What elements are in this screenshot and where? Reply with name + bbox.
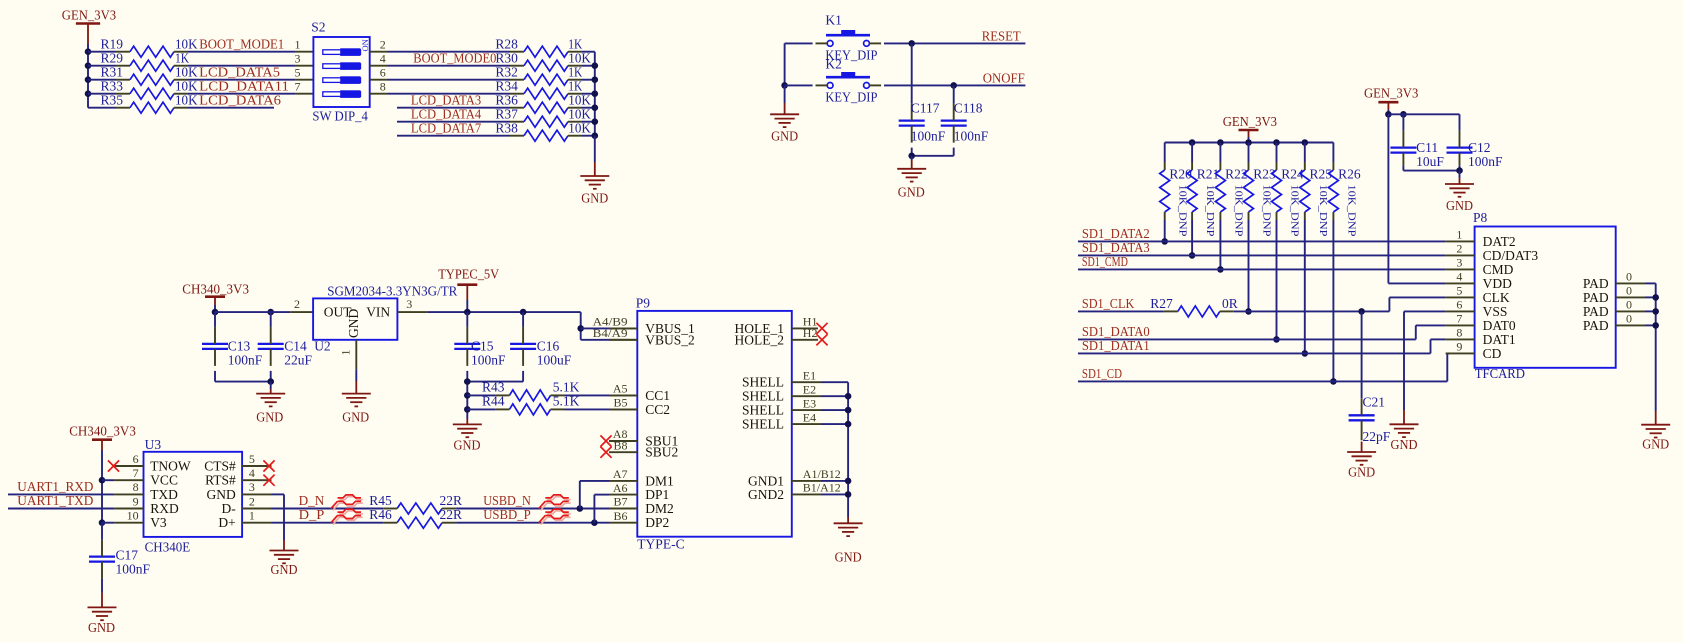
svg-text:SHELL: SHELL bbox=[742, 417, 784, 432]
svg-text:R45: R45 bbox=[369, 493, 392, 508]
svg-text:R19: R19 bbox=[100, 37, 123, 52]
svg-text:10K_DNP: 10K_DNP bbox=[1261, 185, 1273, 237]
svg-text:R34: R34 bbox=[495, 79, 518, 94]
svg-text:3: 3 bbox=[295, 52, 301, 66]
svg-text:5.1K: 5.1K bbox=[553, 393, 580, 408]
svg-text:DP1: DP1 bbox=[645, 487, 669, 502]
svg-text:VIN: VIN bbox=[366, 305, 390, 320]
svg-text:C117: C117 bbox=[911, 101, 940, 116]
svg-text:A6: A6 bbox=[613, 481, 628, 495]
svg-text:4: 4 bbox=[1456, 270, 1462, 284]
svg-text:8: 8 bbox=[380, 80, 386, 94]
svg-text:100nF: 100nF bbox=[954, 129, 989, 144]
svg-text:DAT0: DAT0 bbox=[1483, 318, 1516, 333]
svg-text:3: 3 bbox=[406, 297, 412, 311]
svg-text:R36: R36 bbox=[495, 93, 518, 108]
svg-text:K1: K1 bbox=[825, 13, 842, 28]
svg-text:SD1_DATA0: SD1_DATA0 bbox=[1082, 324, 1150, 339]
svg-text:RXD: RXD bbox=[150, 501, 179, 516]
svg-text:SD1_DATA2: SD1_DATA2 bbox=[1082, 226, 1150, 241]
svg-text:CH340_3V3: CH340_3V3 bbox=[182, 282, 249, 297]
svg-text:ONOFF: ONOFF bbox=[983, 70, 1025, 85]
svg-text:GND: GND bbox=[581, 191, 608, 206]
svg-text:SW DIP_4: SW DIP_4 bbox=[312, 109, 368, 124]
svg-text:LCD_DATA3: LCD_DATA3 bbox=[411, 93, 482, 108]
svg-text:B1/A12: B1/A12 bbox=[803, 481, 841, 495]
svg-text:VDD: VDD bbox=[1483, 276, 1512, 291]
svg-text:CC1: CC1 bbox=[645, 388, 670, 403]
svg-text:E1: E1 bbox=[803, 368, 816, 382]
svg-text:R33: R33 bbox=[100, 79, 123, 94]
svg-text:22R: 22R bbox=[440, 493, 463, 508]
svg-text:DAT2: DAT2 bbox=[1483, 234, 1516, 249]
svg-text:GND: GND bbox=[342, 410, 369, 425]
svg-text:E2: E2 bbox=[803, 382, 816, 396]
svg-text:100nF: 100nF bbox=[1468, 154, 1503, 169]
svg-text:C13: C13 bbox=[228, 338, 251, 353]
svg-text:USBD_N: USBD_N bbox=[483, 493, 531, 508]
svg-text:10K: 10K bbox=[568, 51, 591, 66]
svg-text:C21: C21 bbox=[1363, 395, 1386, 410]
svg-text:9: 9 bbox=[1456, 340, 1462, 354]
svg-text:R32: R32 bbox=[495, 65, 518, 80]
svg-text:TXD: TXD bbox=[150, 487, 178, 502]
svg-text:CLK: CLK bbox=[1483, 290, 1510, 305]
svg-text:3: 3 bbox=[249, 480, 255, 494]
svg-text:GND: GND bbox=[271, 562, 298, 577]
svg-text:PAD: PAD bbox=[1583, 276, 1609, 291]
svg-text:LCD_DATA11: LCD_DATA11 bbox=[199, 79, 289, 94]
svg-text:GND: GND bbox=[1446, 198, 1473, 213]
svg-text:LCD_DATA5: LCD_DATA5 bbox=[199, 65, 280, 80]
svg-text:100nF: 100nF bbox=[116, 561, 151, 576]
svg-text:R37: R37 bbox=[495, 107, 518, 122]
svg-text:R43: R43 bbox=[482, 379, 505, 394]
svg-text:K2: K2 bbox=[825, 56, 842, 71]
svg-text:GND: GND bbox=[835, 550, 862, 565]
svg-text:8: 8 bbox=[133, 480, 139, 494]
svg-text:100nF: 100nF bbox=[228, 352, 263, 367]
svg-text:BOOT_MODE0: BOOT_MODE0 bbox=[413, 51, 496, 66]
svg-text:10K: 10K bbox=[175, 93, 198, 108]
svg-text:A7: A7 bbox=[613, 467, 628, 481]
svg-text:TFCARD: TFCARD bbox=[1475, 366, 1526, 381]
svg-text:C16: C16 bbox=[537, 338, 560, 353]
svg-text:E4: E4 bbox=[803, 410, 816, 424]
svg-text:10K: 10K bbox=[175, 37, 198, 52]
svg-text:0R: 0R bbox=[1222, 296, 1238, 311]
svg-text:9: 9 bbox=[133, 494, 139, 508]
svg-text:R31: R31 bbox=[100, 65, 123, 80]
svg-text:PAD: PAD bbox=[1583, 304, 1609, 319]
svg-text:2: 2 bbox=[294, 297, 300, 311]
svg-text:SHELL: SHELL bbox=[742, 389, 784, 404]
svg-text:TNOW: TNOW bbox=[150, 459, 191, 474]
svg-text:GND: GND bbox=[88, 620, 115, 635]
svg-text:0: 0 bbox=[1626, 298, 1632, 312]
svg-text:HOLE_2: HOLE_2 bbox=[735, 332, 785, 347]
svg-text:R27: R27 bbox=[1150, 296, 1173, 311]
svg-text:U2: U2 bbox=[314, 338, 331, 353]
svg-text:10K: 10K bbox=[175, 79, 198, 94]
svg-text:GND2: GND2 bbox=[748, 487, 784, 502]
svg-text:RESET: RESET bbox=[982, 28, 1022, 43]
svg-text:10K: 10K bbox=[568, 107, 591, 122]
svg-text:LCD_DATA7: LCD_DATA7 bbox=[411, 121, 482, 136]
svg-text:GND: GND bbox=[346, 309, 361, 338]
svg-text:10K_DNP: 10K_DNP bbox=[1177, 185, 1189, 237]
svg-text:10uF: 10uF bbox=[1416, 154, 1444, 169]
svg-text:DM2: DM2 bbox=[645, 501, 674, 516]
svg-text:10K: 10K bbox=[568, 121, 591, 136]
svg-text:2: 2 bbox=[249, 494, 255, 508]
svg-text:SHELL: SHELL bbox=[742, 403, 784, 418]
svg-text:TYPEC_5V: TYPEC_5V bbox=[438, 266, 499, 281]
svg-text:GND: GND bbox=[1642, 437, 1669, 452]
svg-text:SD1_CLK: SD1_CLK bbox=[1082, 296, 1135, 311]
svg-text:U3: U3 bbox=[145, 437, 162, 452]
svg-text:C12: C12 bbox=[1468, 140, 1491, 155]
svg-text:1: 1 bbox=[295, 38, 301, 52]
svg-text:10: 10 bbox=[127, 509, 139, 523]
svg-text:22pF: 22pF bbox=[1363, 429, 1391, 444]
svg-text:1: 1 bbox=[339, 350, 353, 356]
svg-text:RTS#: RTS# bbox=[205, 473, 236, 488]
svg-text:B6: B6 bbox=[613, 509, 627, 523]
svg-text:P8: P8 bbox=[1473, 210, 1488, 225]
svg-text:B8: B8 bbox=[613, 438, 627, 452]
svg-text:1K: 1K bbox=[568, 65, 582, 80]
svg-text:P9: P9 bbox=[636, 295, 651, 310]
svg-text:5: 5 bbox=[1456, 284, 1462, 298]
svg-text:CD/DAT3: CD/DAT3 bbox=[1483, 248, 1539, 263]
svg-text:100nF: 100nF bbox=[911, 129, 946, 144]
svg-text:CH340_3V3: CH340_3V3 bbox=[69, 424, 136, 439]
svg-text:GEN_3V3: GEN_3V3 bbox=[1364, 86, 1419, 101]
svg-text:CH340E: CH340E bbox=[145, 540, 191, 555]
svg-text:VCC: VCC bbox=[150, 473, 178, 488]
svg-text:1: 1 bbox=[1456, 228, 1462, 242]
svg-text:R29: R29 bbox=[100, 51, 123, 66]
svg-text:DP2: DP2 bbox=[645, 515, 669, 530]
svg-text:D_P: D_P bbox=[299, 507, 325, 522]
svg-text:C11: C11 bbox=[1416, 140, 1438, 155]
svg-text:10K_DNP: 10K_DNP bbox=[1289, 185, 1301, 237]
svg-text:TYPE-C: TYPE-C bbox=[637, 537, 684, 552]
svg-text:4: 4 bbox=[380, 52, 386, 66]
svg-text:C15: C15 bbox=[471, 338, 494, 353]
svg-text:100nF: 100nF bbox=[471, 352, 506, 367]
svg-text:3: 3 bbox=[1456, 256, 1462, 270]
svg-text:100uF: 100uF bbox=[537, 352, 572, 367]
svg-text:SHELL: SHELL bbox=[742, 375, 784, 390]
svg-text:10K_DNP: 10K_DNP bbox=[1232, 185, 1244, 237]
svg-text:7: 7 bbox=[133, 466, 139, 480]
svg-text:LCD_DATA6: LCD_DATA6 bbox=[199, 93, 281, 108]
svg-text:GND: GND bbox=[1391, 437, 1418, 452]
svg-text:PAD: PAD bbox=[1583, 318, 1609, 333]
svg-text:PAD: PAD bbox=[1583, 290, 1609, 305]
svg-text:CC2: CC2 bbox=[645, 402, 670, 417]
svg-text:0: 0 bbox=[1626, 284, 1632, 298]
svg-text:0: 0 bbox=[1626, 270, 1632, 284]
svg-text:A1/B12: A1/B12 bbox=[803, 467, 841, 481]
svg-text:5.1K: 5.1K bbox=[553, 379, 580, 394]
svg-text:C17: C17 bbox=[116, 547, 139, 562]
svg-text:KEY_DIP: KEY_DIP bbox=[825, 90, 877, 105]
svg-text:10K_DNP: 10K_DNP bbox=[1204, 185, 1216, 237]
svg-text:C118: C118 bbox=[954, 101, 983, 116]
svg-text:D_N: D_N bbox=[299, 493, 325, 508]
svg-text:10K_DNP: 10K_DNP bbox=[1317, 185, 1329, 237]
svg-text:SBU2: SBU2 bbox=[645, 445, 678, 460]
svg-text:SD1_DATA3: SD1_DATA3 bbox=[1082, 240, 1150, 255]
svg-text:BOOT_MODE1: BOOT_MODE1 bbox=[199, 37, 284, 52]
svg-text:SD1_CD: SD1_CD bbox=[1082, 366, 1122, 381]
svg-text:7: 7 bbox=[1456, 312, 1462, 326]
svg-text:B7: B7 bbox=[613, 495, 627, 509]
svg-text:V3: V3 bbox=[150, 515, 167, 530]
svg-text:5: 5 bbox=[249, 452, 255, 466]
svg-text:DAT1: DAT1 bbox=[1483, 332, 1516, 347]
svg-text:10K: 10K bbox=[568, 93, 591, 108]
svg-text:ON: ON bbox=[360, 39, 370, 51]
svg-text:10K_DNP: 10K_DNP bbox=[1345, 185, 1357, 237]
svg-text:D+: D+ bbox=[218, 515, 235, 530]
svg-text:SGM2034-3.3YN3G/TR: SGM2034-3.3YN3G/TR bbox=[327, 283, 457, 298]
svg-text:22R: 22R bbox=[440, 507, 463, 522]
svg-text:SD1_DATA1: SD1_DATA1 bbox=[1082, 338, 1150, 353]
svg-text:R38: R38 bbox=[495, 121, 518, 136]
svg-text:S2: S2 bbox=[311, 20, 325, 35]
svg-text:B5: B5 bbox=[613, 396, 627, 410]
svg-text:R30: R30 bbox=[495, 51, 518, 66]
svg-text:USBD_P: USBD_P bbox=[483, 507, 531, 522]
svg-text:GEN_3V3: GEN_3V3 bbox=[62, 8, 117, 23]
svg-text:R35: R35 bbox=[100, 93, 123, 108]
svg-text:R26: R26 bbox=[1338, 167, 1361, 182]
svg-text:SD1_CMD: SD1_CMD bbox=[1082, 254, 1128, 269]
svg-text:1K: 1K bbox=[568, 79, 582, 94]
svg-text:6: 6 bbox=[380, 66, 386, 80]
svg-text:10K: 10K bbox=[175, 65, 198, 80]
svg-text:B4/A9: B4/A9 bbox=[593, 326, 628, 340]
svg-text:LCD_DATA4: LCD_DATA4 bbox=[411, 107, 482, 122]
svg-text:GND: GND bbox=[898, 185, 925, 200]
svg-text:C14: C14 bbox=[284, 338, 307, 353]
svg-text:GND: GND bbox=[771, 128, 798, 143]
svg-text:5: 5 bbox=[295, 66, 301, 80]
svg-text:D-: D- bbox=[222, 501, 237, 516]
svg-text:VSS: VSS bbox=[1483, 304, 1508, 319]
svg-text:7: 7 bbox=[295, 80, 301, 94]
svg-text:2: 2 bbox=[1456, 242, 1462, 256]
svg-text:22uF: 22uF bbox=[284, 352, 312, 367]
svg-text:4: 4 bbox=[249, 466, 255, 480]
svg-text:2: 2 bbox=[380, 38, 386, 52]
svg-text:R28: R28 bbox=[495, 37, 518, 52]
svg-text:GND: GND bbox=[207, 487, 236, 502]
svg-text:GND: GND bbox=[1348, 464, 1375, 479]
svg-text:1K: 1K bbox=[175, 51, 189, 66]
svg-text:UART1_RXD: UART1_RXD bbox=[17, 479, 93, 494]
svg-text:R44: R44 bbox=[482, 393, 505, 408]
svg-text:R46: R46 bbox=[369, 507, 392, 522]
svg-text:GEN_3V3: GEN_3V3 bbox=[1223, 114, 1278, 129]
svg-text:CD: CD bbox=[1483, 346, 1502, 361]
svg-text:0: 0 bbox=[1626, 312, 1632, 326]
svg-text:VBUS_2: VBUS_2 bbox=[645, 332, 695, 347]
svg-text:8: 8 bbox=[1456, 326, 1462, 340]
svg-text:6: 6 bbox=[1456, 298, 1462, 312]
svg-text:GND: GND bbox=[256, 410, 283, 425]
svg-text:E3: E3 bbox=[803, 396, 816, 410]
svg-text:6: 6 bbox=[133, 452, 139, 466]
svg-text:CTS#: CTS# bbox=[204, 459, 236, 474]
svg-text:A5: A5 bbox=[613, 382, 628, 396]
svg-text:GND: GND bbox=[454, 438, 481, 453]
svg-text:1K: 1K bbox=[568, 37, 582, 52]
svg-text:CMD: CMD bbox=[1483, 262, 1514, 277]
svg-text:1: 1 bbox=[249, 509, 255, 523]
